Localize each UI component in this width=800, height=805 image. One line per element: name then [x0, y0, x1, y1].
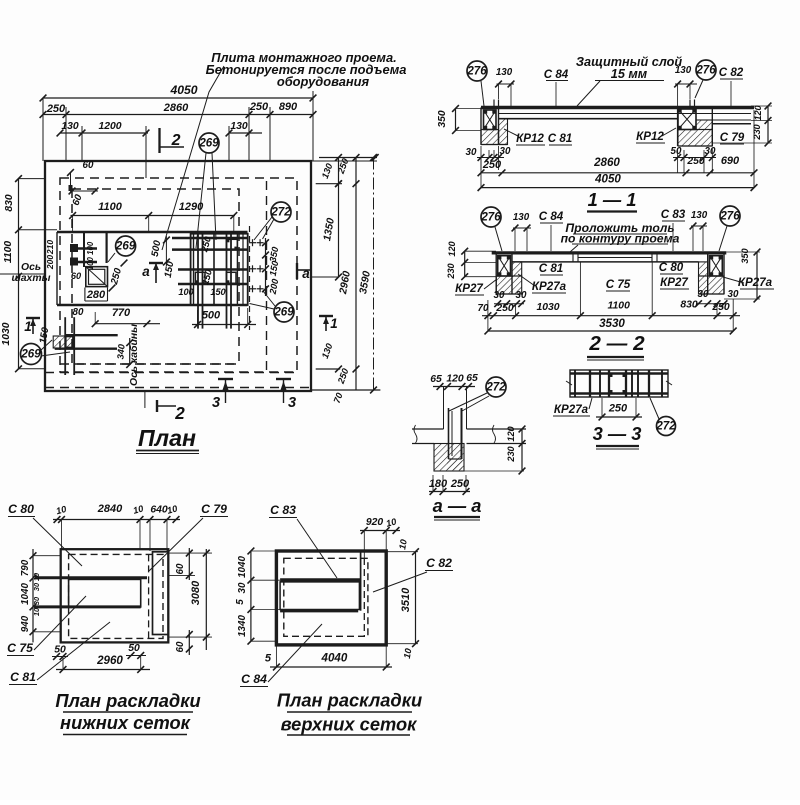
bl: dashed mesh boundary: [148, 554, 150, 638]
svg-text:1: 1: [24, 319, 31, 334]
plan: section mark 3 left bottom: [218, 378, 233, 380]
plan: callout circle 269 right: [274, 302, 294, 322]
svg-text:210: 210: [45, 240, 55, 255]
svg-text:1100: 1100: [608, 301, 631, 312]
plan: dashed mesh boundary right: [266, 181, 268, 371]
svg-text:С 79: С 79: [720, 131, 745, 144]
svg-text:30: 30: [494, 290, 505, 301]
s11: callout circle 276 left: [467, 61, 487, 81]
plan: left dim column 830 1100 1030: [18, 179, 20, 369]
plan: section mark 2 bottom: [144, 391, 146, 408]
svg-text:250: 250: [711, 302, 730, 313]
plan: callout circle 269 top: [199, 133, 219, 153]
s33: callout circle 272: [657, 417, 676, 436]
plan: bottom-left anchor detail: [65, 334, 118, 336]
s33: vertical bars: [574, 370, 576, 397]
bl: mesh bars: [35, 576, 147, 579]
saa: channel walls: [443, 387, 445, 430]
svg-text:100: 100: [178, 287, 194, 297]
svg-text:150: 150: [210, 287, 226, 297]
plan: outer dashed contour: [60, 178, 297, 372]
svg-text:С 82: С 82: [719, 66, 744, 79]
saa: leaders to 272: [449, 393, 487, 411]
svg-text:80: 80: [73, 307, 84, 318]
svg-text:КР27: КР27: [455, 282, 483, 295]
svg-text:С 80: С 80: [8, 502, 34, 516]
s11: slab bottom line: [499, 118, 678, 120]
svg-text:30: 30: [32, 583, 41, 591]
svg-text:30: 30: [728, 289, 739, 300]
svg-text:С 80: С 80: [659, 261, 684, 274]
svg-text:890: 890: [279, 101, 298, 113]
bl: right dims 60 3080 60: [168, 552, 212, 554]
svg-text:4050: 4050: [594, 173, 621, 186]
plan: opening band top edge: [57, 231, 248, 234]
svg-text:3530: 3530: [599, 317, 625, 330]
svg-text:10: 10: [32, 573, 41, 581]
bm: inner dashed: [284, 558, 368, 636]
svg-text:350: 350: [740, 247, 750, 263]
plan: grid horizontal bars: [172, 237, 248, 240]
svg-text:130: 130: [513, 212, 530, 223]
plan: section mark 1 right: [319, 315, 333, 317]
svg-text:30: 30: [516, 290, 527, 301]
s33: band chords: [570, 372, 668, 374]
plan: opening band left edge: [56, 232, 58, 305]
svg-text:С 79: С 79: [201, 502, 227, 516]
svg-text:План раскладки: План раскладки: [277, 690, 422, 711]
svg-text:30: 30: [698, 289, 709, 300]
svg-text:1 — 1: 1 — 1: [588, 189, 637, 210]
svg-text:а: а: [302, 266, 310, 281]
svg-text:2860: 2860: [163, 102, 189, 114]
plan: callout circle 269 bottom-left: [21, 344, 42, 365]
svg-text:830: 830: [4, 194, 15, 212]
svg-text:130: 130: [675, 65, 692, 76]
plan: grid cell squares: [226, 239, 237, 249]
bm: mesh mid rect: [280, 582, 359, 610]
bl: inner dashed: [69, 554, 163, 638]
svg-text:130: 130: [691, 210, 708, 221]
svg-text:С 84: С 84: [539, 210, 564, 223]
svg-text:1340: 1340: [237, 615, 248, 637]
s11: slab mid line: [499, 113, 751, 115]
plan: band inner wall verticals: [83, 232, 85, 267]
svg-text:3510: 3510: [400, 587, 412, 612]
plan: annotation leader line: [162, 66, 224, 250]
plan: opening band bottom edge: [57, 304, 248, 307]
svg-text:2840: 2840: [97, 503, 123, 515]
svg-text:130: 130: [496, 67, 513, 78]
plan: anchor square 280: [86, 267, 108, 287]
svg-text:70: 70: [478, 303, 489, 314]
svg-text:1: 1: [330, 316, 337, 331]
svg-text:15 мм: 15 мм: [611, 67, 648, 81]
plan: callout circle 272: [271, 202, 291, 222]
svg-text:830: 830: [680, 300, 698, 311]
plan: section mark 2 top: [158, 128, 160, 153]
svg-text:770: 770: [112, 307, 131, 319]
svg-text:230: 230: [752, 123, 762, 140]
svg-text:60: 60: [175, 641, 186, 652]
svg-text:10: 10: [32, 608, 41, 616]
s33: band outline: [570, 370, 668, 397]
plan: label box 280: [85, 300, 108, 302]
svg-text:60: 60: [175, 563, 186, 574]
svg-text:269: 269: [273, 305, 294, 318]
s11: slab right part bottom: [712, 123, 751, 125]
plan: dim marks right of grid: [265, 238, 267, 296]
svg-text:60: 60: [83, 160, 94, 171]
svg-text:С 83: С 83: [661, 208, 686, 221]
s22: left column section: [498, 256, 511, 276]
svg-text:920: 920: [366, 517, 384, 528]
s11: right dim 120 230: [751, 105, 772, 107]
svg-text:60: 60: [71, 271, 82, 281]
s22: slab mid joints: [572, 253, 574, 262]
svg-text:С 83: С 83: [270, 503, 296, 517]
svg-text:272: 272: [270, 205, 291, 218]
bm: outer rect thick: [276, 551, 386, 645]
svg-text:230: 230: [506, 445, 516, 462]
svg-text:280: 280: [86, 289, 106, 301]
svg-text:276: 276: [466, 64, 487, 77]
plan: rebar cross marks: [249, 242, 256, 244]
svg-text:1030: 1030: [1, 322, 12, 345]
plan: extension lines top: [42, 98, 44, 161]
svg-text:130: 130: [61, 121, 79, 132]
svg-text:276: 276: [480, 210, 501, 223]
svg-text:а — а: а — а: [433, 495, 482, 516]
svg-text:КР12: КР12: [516, 132, 544, 145]
svg-text:120: 120: [446, 374, 464, 385]
svg-text:790: 790: [20, 559, 31, 576]
svg-text:200: 200: [45, 255, 55, 270]
plan: grid vertical bars: [193, 234, 195, 305]
svg-text:3 — 3: 3 — 3: [593, 423, 642, 444]
svg-text:250: 250: [46, 103, 66, 115]
svg-text:30: 30: [466, 147, 477, 158]
svg-text:30: 30: [237, 582, 248, 593]
s11: mesh hook above slab left: [498, 100, 500, 108]
saa: slab left: [412, 428, 444, 430]
bm: vertical joint line: [360, 552, 362, 611]
svg-text:С 75: С 75: [7, 641, 33, 655]
svg-text:65: 65: [430, 374, 442, 385]
plan: callout circle 269 mid: [116, 236, 136, 256]
svg-text:690: 690: [721, 155, 740, 167]
bl: outer rect: [61, 549, 169, 642]
s11: callout circle 276 right: [696, 60, 716, 80]
svg-text:Ось: Ось: [21, 262, 41, 273]
svg-text:3: 3: [288, 395, 296, 411]
plan: section mark 1 left: [26, 317, 40, 319]
s11: left column section: [484, 110, 497, 130]
svg-text:250: 250: [450, 478, 470, 490]
saa: slab right: [467, 428, 527, 430]
svg-text:1290: 1290: [179, 201, 204, 213]
svg-text:2960: 2960: [96, 654, 123, 667]
svg-text:269: 269: [198, 136, 219, 149]
plan: section mark 3 right bottom: [276, 378, 291, 380]
s11: right column section: [678, 109, 696, 130]
s11: mesh hook above slab right: [689, 100, 691, 108]
svg-text:5: 5: [235, 599, 246, 605]
plan: section mark a right: [296, 263, 298, 279]
svg-text:С 81: С 81: [548, 132, 573, 145]
plan: bottom dashed lines: [60, 363, 239, 365]
bm: mesh bars thick: [280, 578, 361, 581]
svg-text:1100: 1100: [3, 241, 14, 264]
svg-text:250: 250: [686, 156, 705, 167]
saa: foundation hatch: [434, 444, 464, 472]
svg-text:1030: 1030: [536, 302, 559, 313]
plan: leader from 269 top to grid: [196, 153, 206, 248]
svg-text:С 81: С 81: [10, 670, 36, 684]
svg-text:КР12: КР12: [636, 130, 664, 143]
saa: callout circle 272: [486, 377, 506, 397]
svg-text:1100: 1100: [98, 201, 123, 213]
svg-text:130: 130: [230, 121, 248, 132]
svg-text:250: 250: [482, 159, 502, 171]
svg-text:а: а: [142, 264, 150, 279]
svg-text:350: 350: [437, 110, 448, 128]
svg-text:1200: 1200: [98, 121, 121, 132]
svg-text:С 84: С 84: [544, 68, 569, 81]
svg-text:269: 269: [115, 239, 136, 252]
plan: bottom dashed mesh line: [45, 387, 311, 389]
svg-text:Ось кабины: Ось кабины: [128, 324, 140, 386]
svg-text:230: 230: [446, 262, 456, 279]
svg-text:1040: 1040: [237, 556, 248, 578]
svg-text:С 81: С 81: [539, 262, 564, 275]
svg-text:оборудования: оборудования: [277, 74, 370, 89]
svg-text:2: 2: [171, 132, 181, 149]
svg-text:269: 269: [20, 347, 41, 360]
s22: callout circle 276 right: [720, 206, 740, 226]
svg-text:500: 500: [202, 310, 221, 322]
s22: slab top chord: [492, 251, 727, 254]
svg-text:КР27а: КР27а: [554, 403, 589, 416]
svg-text:120: 120: [447, 240, 457, 256]
svg-text:2 — 2: 2 — 2: [588, 332, 645, 355]
svg-text:276: 276: [695, 63, 716, 76]
s33: end break marks: [566, 381, 572, 385]
svg-text:30: 30: [32, 597, 41, 605]
svg-text:120: 120: [506, 425, 516, 441]
svg-text:С 82: С 82: [426, 556, 452, 570]
svg-text:4050: 4050: [169, 83, 197, 97]
plan: embed plates left: [70, 244, 78, 252]
svg-text:276: 276: [719, 209, 740, 222]
bl: mesh mid rect: [69, 579, 141, 607]
svg-text:2: 2: [174, 404, 185, 423]
svg-text:940: 940: [20, 615, 31, 632]
svg-text:250: 250: [608, 403, 628, 415]
svg-text:КР27: КР27: [660, 276, 688, 289]
svg-text:КР27а: КР27а: [532, 280, 567, 293]
bl: right strip C79: [153, 552, 169, 635]
svg-text:2860: 2860: [593, 156, 620, 169]
s22: right column section: [710, 256, 723, 276]
s22: slab bottom line: [512, 261, 699, 263]
svg-text:3: 3: [212, 395, 220, 411]
s33: center opening square: [609, 374, 626, 394]
plan: reinforcement grid frame: [191, 234, 248, 305]
svg-text:120: 120: [753, 104, 763, 120]
svg-text:5: 5: [265, 653, 272, 665]
svg-text:План раскладки: План раскладки: [55, 690, 200, 711]
svg-text:План: План: [138, 425, 196, 451]
svg-text:272: 272: [485, 380, 506, 393]
svg-text:верхних сеток: верхних сеток: [281, 714, 418, 735]
svg-text:100 100: 100 100: [86, 241, 95, 270]
plan: inner dashed contour: [72, 189, 239, 364]
s11: slab top chord: [481, 106, 754, 110]
svg-text:272: 272: [655, 419, 676, 432]
svg-text:нижних сеток: нижних сеток: [60, 712, 191, 733]
svg-text:340: 340: [115, 343, 126, 360]
svg-text:3080: 3080: [190, 580, 202, 605]
svg-text:250: 250: [495, 303, 514, 314]
s22: callout circle 276 left: [481, 207, 501, 227]
svg-text:С 75: С 75: [606, 278, 631, 291]
plan: outer wall rectangle: [45, 161, 311, 391]
svg-text:С 84: С 84: [241, 672, 267, 686]
svg-text:1040: 1040: [20, 583, 31, 605]
svg-text:65: 65: [466, 373, 478, 384]
plan: dashed axis through grid: [249, 226, 251, 330]
svg-text:4040: 4040: [321, 652, 348, 665]
